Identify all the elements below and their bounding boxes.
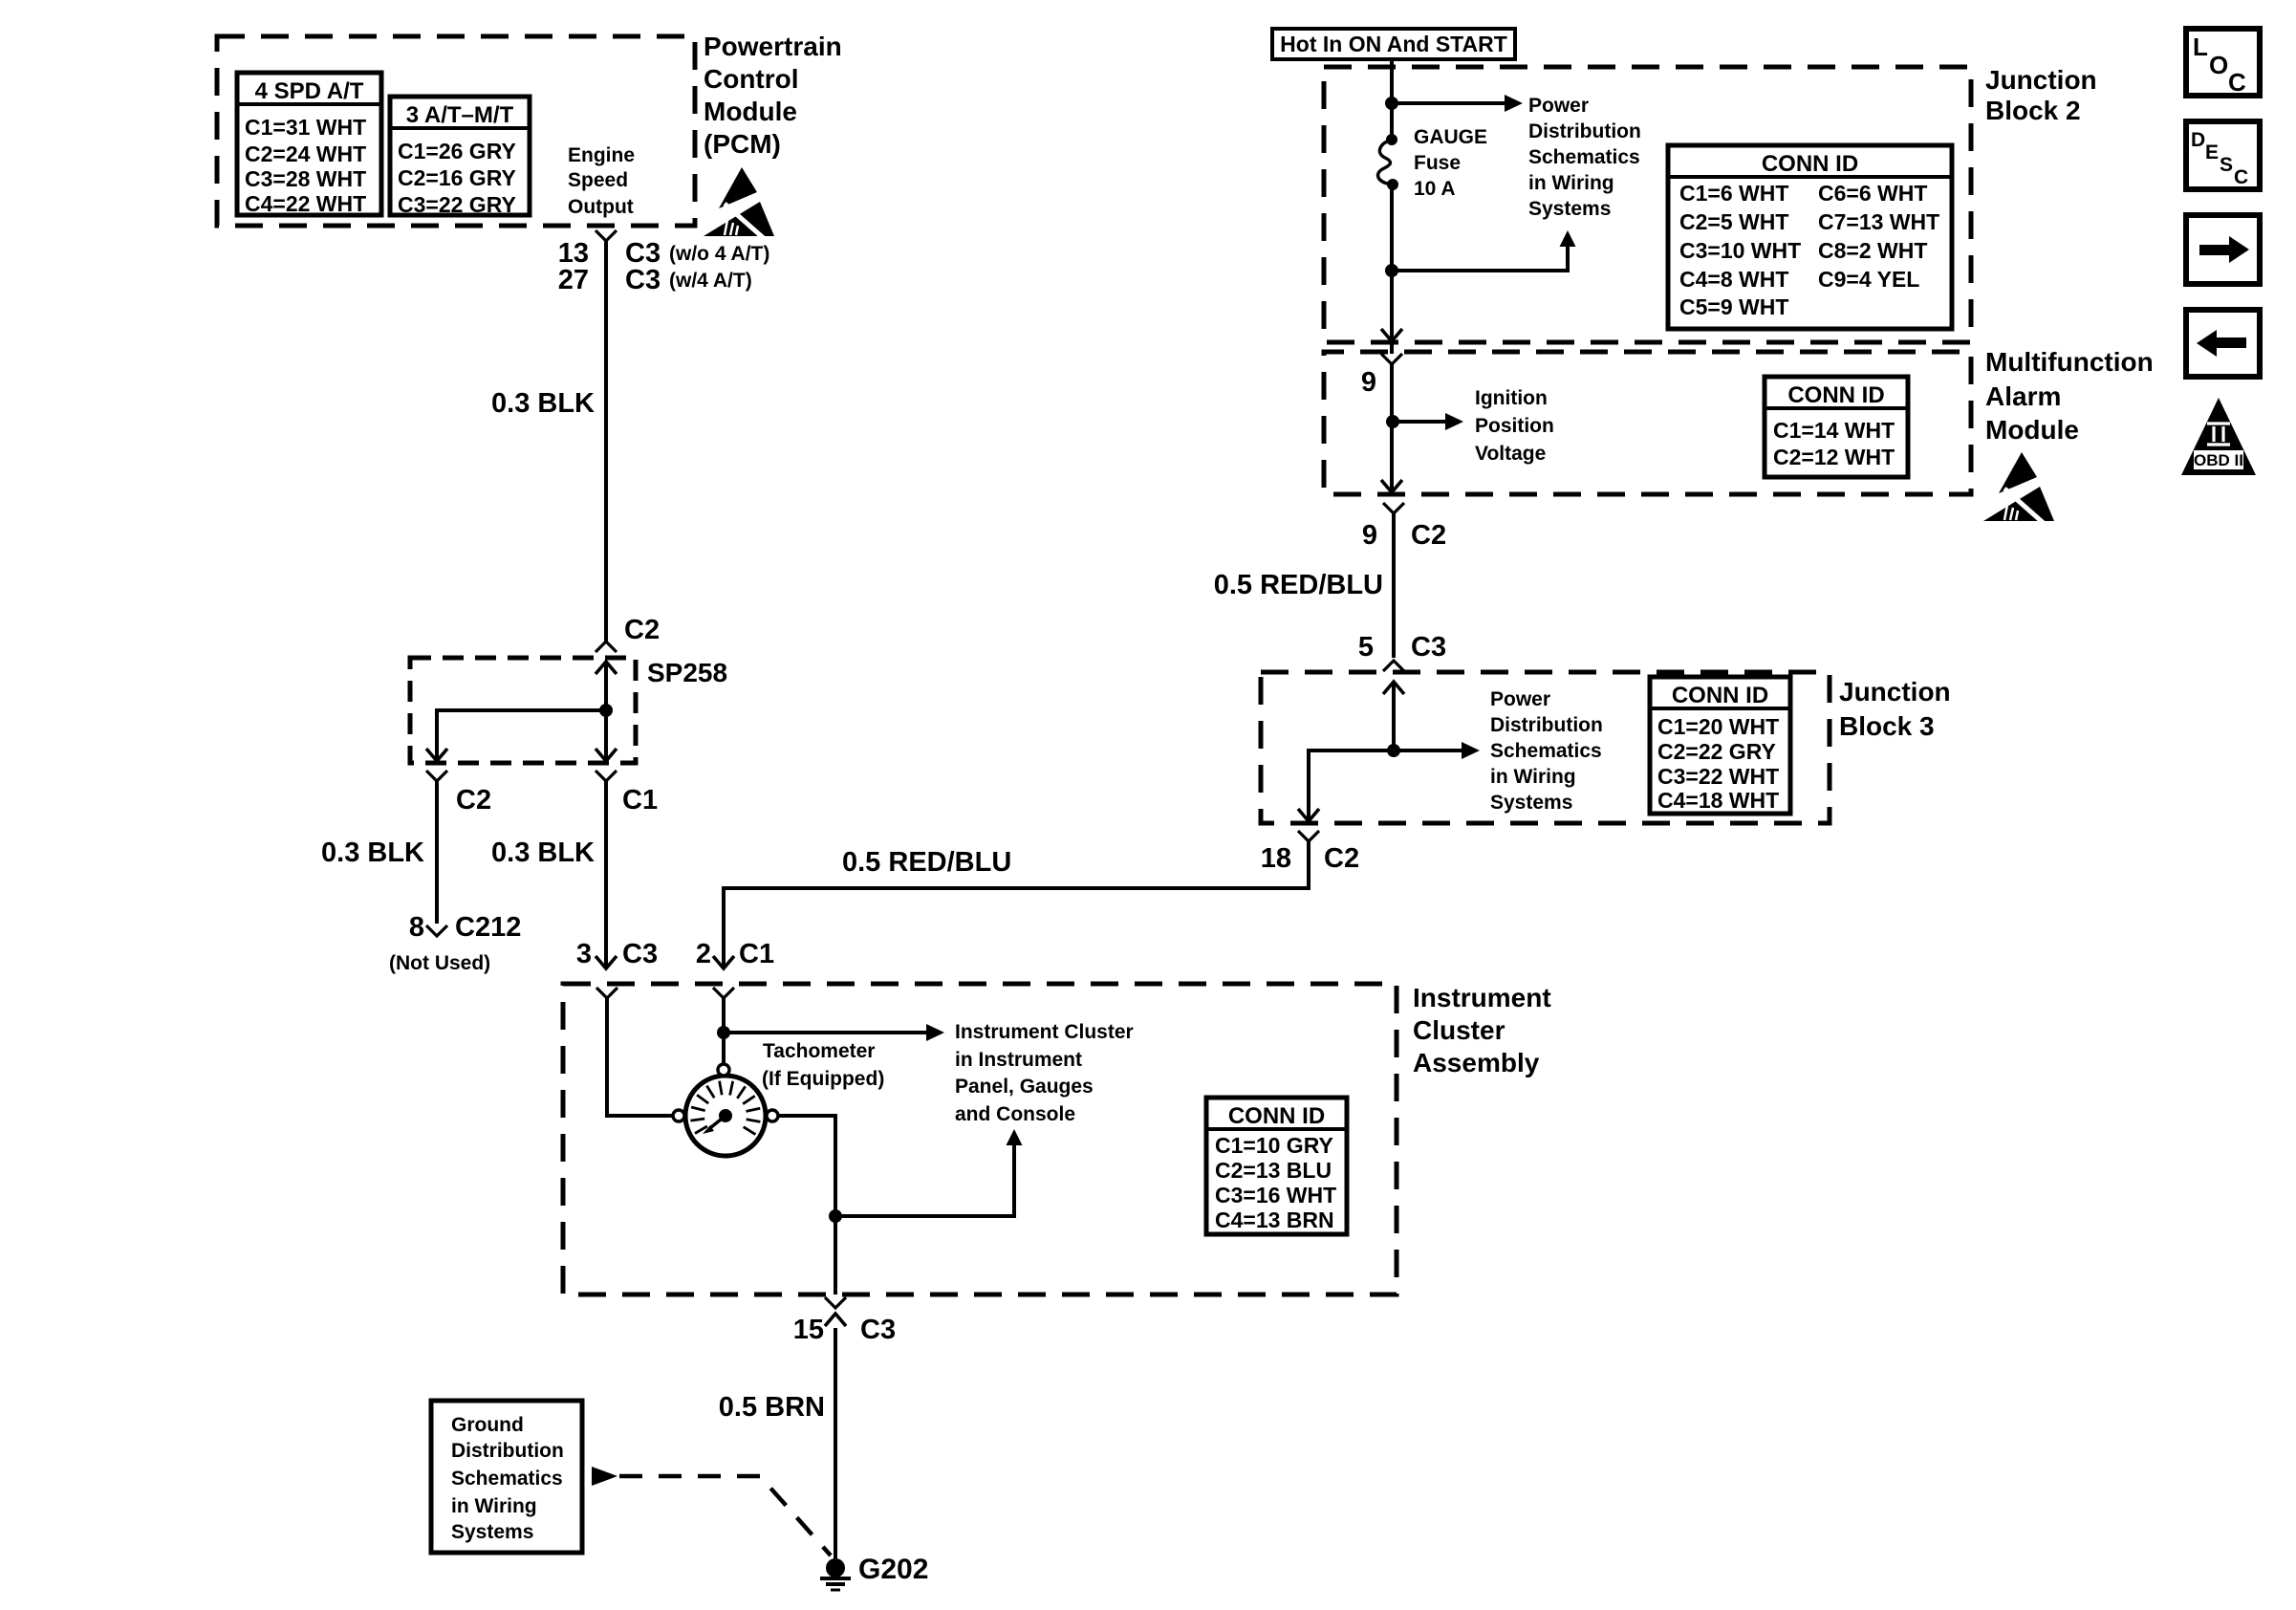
svg-text:Hot In ON And START: Hot In ON And START [1280, 32, 1507, 56]
svg-text:5: 5 [1358, 632, 1374, 663]
svg-text:C3: C3 [625, 265, 661, 295]
svg-text:in Wiring: in Wiring [451, 1495, 537, 1517]
wire into SP258 with up arrow [596, 662, 617, 710]
svg-text:Tachometer: Tachometer [763, 1040, 875, 1062]
svg-text:C7=13 WHT: C7=13 WHT [1818, 209, 1939, 234]
svg-text:Instrument Cluster: Instrument Cluster [955, 1021, 1134, 1043]
svg-text:8: 8 [409, 912, 424, 943]
svg-text:Ground: Ground [451, 1414, 524, 1436]
svg-text:D: D [2191, 129, 2205, 151]
arrow to Instrument Cluster reference [724, 1024, 944, 1041]
wire branch left inside SP258 [426, 710, 606, 761]
svg-text:E: E [2205, 141, 2219, 163]
module Junction Block 3 dashed box [1261, 672, 1830, 823]
svg-text:Module: Module [704, 97, 797, 126]
svg-text:C4=13 BRN: C4=13 BRN [1215, 1207, 1334, 1232]
svg-text:OBD II: OBD II [2194, 451, 2243, 469]
svg-text:Block 3: Block 3 [1839, 711, 1935, 741]
wire 0.5 BRN to ground [719, 1328, 835, 1560]
svg-text:C212: C212 [455, 912, 521, 943]
svg-text:Multifunction: Multifunction [1985, 347, 2154, 377]
connector C2 pin 9 below MAM [1362, 503, 1446, 551]
svg-text:CONN ID: CONN ID [1672, 683, 1768, 708]
svg-text:C2=13 BLU: C2=13 BLU [1215, 1158, 1332, 1183]
svg-text:0.3 BLK: 0.3 BLK [491, 838, 595, 868]
svg-text:0.5 RED/BLU: 0.5 RED/BLU [1214, 570, 1383, 600]
node and arrow to Ignition Position Voltage [1386, 413, 1463, 430]
svg-text:C3: C3 [860, 1315, 896, 1345]
svg-text:Block 2: Block 2 [1985, 96, 2081, 125]
power feed box Hot In ON And START [1272, 29, 1515, 59]
svg-text:C3=22 WHT: C3=22 WHT [1657, 764, 1779, 789]
svg-text:in Instrument: in Instrument [955, 1049, 1082, 1071]
svg-text:C1=6 WHT: C1=6 WHT [1679, 181, 1788, 206]
svg-text:4 SPD A/T: 4 SPD A/T [255, 78, 364, 104]
wire fuse to JB2 bottom [1381, 185, 1402, 341]
connector table CONN ID (JB3) [1650, 677, 1790, 814]
svg-text:C1=26 GRY: C1=26 GRY [398, 139, 516, 163]
svg-text:C1=14 WHT: C1=14 WHT [1773, 418, 1895, 443]
wire 0.3 BLK to C212 (not used) [321, 781, 437, 924]
svg-text:CONN ID: CONN ID [1228, 1103, 1325, 1129]
node and arrow up to schematics reference [1385, 230, 1576, 277]
svg-text:Distribution: Distribution [451, 1440, 564, 1462]
label Instrument Cluster Assembly [1413, 983, 1551, 1077]
svg-text:C3=16 WHT: C3=16 WHT [1215, 1183, 1336, 1207]
label Engine Speed Output [568, 144, 635, 218]
wire 0.5 RED/BLU from JB3 to cluster pin 2 C1 [696, 841, 1309, 969]
svg-text:CONN ID: CONN ID [1787, 382, 1884, 408]
svg-text:(PCM): (PCM) [704, 129, 781, 159]
svg-text:9: 9 [1362, 520, 1377, 551]
svg-text:Cluster: Cluster [1413, 1015, 1505, 1045]
label Junction Block 2 [1985, 65, 2097, 125]
svg-text:G202: G202 [858, 1554, 928, 1585]
svg-text:Panel, Gauges: Panel, Gauges [955, 1076, 1094, 1098]
svg-text:2: 2 [696, 939, 711, 969]
fuse GAUGE Fuse 10 A [1378, 126, 1487, 200]
svg-text:0.5 RED/BLU: 0.5 RED/BLU [842, 847, 1011, 878]
svg-text:Junction: Junction [1985, 65, 2097, 95]
svg-text:18: 18 [1261, 843, 1291, 874]
module Instrument Cluster Assembly dashed box [563, 984, 1397, 1295]
svg-text:Engine: Engine [568, 144, 635, 166]
svg-text:Module: Module [1985, 415, 2079, 445]
svg-text:C2=5 WHT: C2=5 WHT [1679, 209, 1788, 234]
svg-text:Fuse: Fuse [1414, 152, 1461, 174]
svg-text:L: L [2193, 33, 2208, 61]
label Powertrain Control Module (PCM) [704, 32, 842, 159]
connector C3 at PCM (pins 13 / 27) [558, 230, 770, 295]
svg-text:C1=20 WHT: C1=20 WHT [1657, 714, 1779, 739]
svg-text:C2=24 WHT: C2=24 WHT [245, 141, 366, 166]
reference box Ground Distribution Schematics in Wiring Systems [431, 1401, 582, 1553]
svg-text:and Console: and Console [955, 1103, 1075, 1125]
svg-text:Schematics: Schematics [451, 1468, 563, 1490]
svg-text:C3=28 WHT: C3=28 WHT [245, 166, 366, 191]
svg-text:C6=6 WHT: C6=6 WHT [1818, 181, 1927, 206]
svg-text:9: 9 [1361, 367, 1376, 398]
svg-text:Position: Position [1475, 415, 1554, 437]
svg-text:in Wiring: in Wiring [1490, 766, 1576, 788]
svg-text:(w/o 4 A/T): (w/o 4 A/T) [669, 243, 769, 265]
svg-text:C1: C1 [622, 785, 658, 816]
wire 0.3 BLK from PCM C3 to SP258 C2 [491, 247, 660, 645]
svg-text:GAUGE: GAUGE [1414, 126, 1487, 148]
svg-text:Systems: Systems [451, 1521, 533, 1543]
svg-text:C2=12 WHT: C2=12 WHT [1773, 445, 1895, 469]
module Multifunction Alarm Module dashed box [1324, 352, 1971, 494]
svg-text:Voltage: Voltage [1475, 443, 1546, 465]
svg-text:CONN ID: CONN ID [1762, 151, 1858, 177]
svg-text:C1=31 WHT: C1=31 WHT [245, 115, 366, 140]
connector C2 pin 18 below JB3 [1261, 831, 1359, 874]
ESD sensitivity symbol (PCM) [704, 167, 774, 240]
label Multifunction Alarm Module [1985, 347, 2154, 445]
wire inside MAM [1381, 364, 1402, 492]
connector table CONN ID (cluster) [1206, 1098, 1347, 1234]
svg-text:Power: Power [1528, 95, 1589, 117]
node and arrow to Power Distribution Schematics (JB3) [1387, 742, 1480, 759]
svg-text:10 A: 10 A [1414, 178, 1456, 200]
connector C3 pin 5 into JB3 [1383, 661, 1404, 671]
icon OBD II triangle [2181, 398, 2256, 475]
connector table CONN ID (MAM) [1765, 377, 1908, 477]
svg-text:Junction: Junction [1839, 677, 1951, 707]
label Power Distribution Schematics in Wiring Systems (JB3) [1490, 688, 1603, 814]
svg-text:C1=10 GRY: C1=10 GRY [1215, 1133, 1333, 1158]
svg-text:C3=22 GRY: C3=22 GRY [398, 192, 516, 217]
icon forward arrow box [2186, 215, 2260, 284]
svg-text:C4=22 WHT: C4=22 WHT [245, 191, 366, 216]
svg-text:(Not Used): (Not Used) [389, 952, 490, 974]
svg-text:Schematics: Schematics [1490, 740, 1602, 762]
svg-text:(If Equipped): (If Equipped) [762, 1068, 884, 1090]
svg-text:Alarm: Alarm [1985, 381, 2061, 411]
label Tachometer (If Equipped) [762, 1040, 884, 1090]
wire from hot feed into JB2 [1390, 59, 1394, 140]
icon DESC box [2186, 121, 2260, 189]
svg-text:C2: C2 [1411, 520, 1446, 551]
svg-text:Distribution: Distribution [1528, 120, 1641, 142]
svg-text:3 A/T–M/T: 3 A/T–M/T [406, 102, 514, 128]
svg-text:C: C [2234, 166, 2248, 188]
label Junction Block 3 [1839, 677, 1951, 741]
connector C2 into SP258 [596, 642, 617, 652]
svg-text:(w/4 A/T): (w/4 A/T) [669, 270, 752, 292]
wire branch down inside SP258 [596, 710, 617, 761]
node and arrow to Power Distribution Schematics [1385, 95, 1523, 112]
connector table CONN ID (JB2) [1668, 145, 1952, 329]
svg-text:C3: C3 [1411, 632, 1446, 663]
svg-text:C3: C3 [622, 939, 658, 969]
label Instrument Cluster in Instrument Panel, Gauges and Console [955, 1021, 1134, 1125]
svg-text:C2=22 GRY: C2=22 GRY [1657, 739, 1776, 764]
svg-text:C2: C2 [624, 615, 660, 645]
connector table 4 SPD A/T [237, 73, 381, 216]
svg-text:C: C [2228, 68, 2246, 97]
icon back arrow box [2186, 310, 2260, 377]
svg-text:C1: C1 [739, 939, 774, 969]
svg-text:O: O [2209, 51, 2228, 79]
svg-text:Ignition: Ignition [1475, 387, 1548, 409]
svg-text:Powertrain: Powertrain [704, 32, 842, 61]
connector C3 into cluster [596, 988, 617, 998]
svg-text:0.5 BRN: 0.5 BRN [719, 1392, 825, 1423]
wire 0.3 BLK from SP258 C1 to cluster pin 3 C3 [491, 781, 658, 969]
svg-text:15: 15 [793, 1315, 824, 1345]
svg-text:Systems: Systems [1528, 198, 1611, 220]
svg-text:Power: Power [1490, 688, 1550, 710]
svg-text:Instrument: Instrument [1413, 983, 1551, 1012]
module Junction Block 2 dashed box [1324, 67, 1971, 342]
svg-text:Speed: Speed [568, 169, 628, 191]
connector C1 into cluster [713, 988, 734, 998]
svg-text:C8=2 WHT: C8=2 WHT [1818, 238, 1927, 263]
node and arrow up to cluster reference text [829, 1129, 1023, 1223]
splice junction node SP258 [599, 704, 613, 717]
wire branch left and down out of JB3 [1298, 751, 1394, 821]
ESD sensitivity symbol (MAM) [1983, 452, 2054, 525]
svg-text:Output: Output [568, 196, 634, 218]
svg-text:C5=9 WHT: C5=9 WHT [1679, 294, 1788, 319]
connector C1 below SP258 [596, 771, 658, 816]
wire from C1 to tachometer with node [717, 998, 730, 1063]
svg-text:Schematics: Schematics [1528, 146, 1640, 168]
connector table 3 A/T-M/T [390, 97, 530, 217]
svg-text:SP258: SP258 [647, 658, 727, 687]
svg-text:C3=10 WHT: C3=10 WHT [1679, 238, 1801, 263]
wire into JB3 with up arrow [1383, 682, 1404, 751]
wire 0.5 RED/BLU from MAM to JB3 [1214, 513, 1446, 663]
svg-text:C2=16 GRY: C2=16 GRY [398, 165, 516, 190]
wire from C3 down and right to tachometer [607, 998, 672, 1116]
svg-text:27: 27 [558, 265, 589, 295]
svg-text:C9=4 YEL: C9=4 YEL [1818, 267, 1919, 292]
svg-text:Control: Control [704, 64, 799, 94]
connector C2 below SP258 [426, 771, 491, 816]
svg-text:0.3 BLK: 0.3 BLK [491, 388, 595, 419]
ground G202 [820, 1554, 928, 1590]
connector C212 pin 8 (not used) [389, 912, 521, 974]
svg-text:Systems: Systems [1490, 792, 1572, 814]
svg-text:S: S [2220, 154, 2233, 176]
icon LOC box [2186, 29, 2260, 97]
dashed reference line with arrow to ground box [592, 1467, 831, 1556]
module PCM dashed box [217, 36, 695, 226]
tachometer gauge [673, 1064, 778, 1156]
svg-text:C2: C2 [1324, 843, 1359, 874]
label Ignition Position Voltage [1475, 387, 1554, 465]
svg-text:Assembly: Assembly [1413, 1048, 1540, 1077]
connector pin 9 into MAM [1361, 341, 1402, 398]
svg-text:C2: C2 [456, 785, 491, 816]
splice box SP258 (dashed) [410, 658, 727, 763]
svg-text:0.3 BLK: 0.3 BLK [321, 838, 424, 868]
wire from tachometer right terminal down [778, 1116, 835, 1295]
connector C3 pin 15 below cluster [793, 1297, 896, 1345]
svg-text:in Wiring: in Wiring [1528, 172, 1614, 194]
svg-text:Distribution: Distribution [1490, 714, 1603, 736]
svg-text:C4=8 WHT: C4=8 WHT [1679, 267, 1788, 292]
svg-text:C4=18 WHT: C4=18 WHT [1657, 788, 1779, 813]
label Power Distribution Schematics in Wiring Systems (JB2) [1528, 95, 1641, 220]
svg-text:3: 3 [576, 939, 592, 969]
